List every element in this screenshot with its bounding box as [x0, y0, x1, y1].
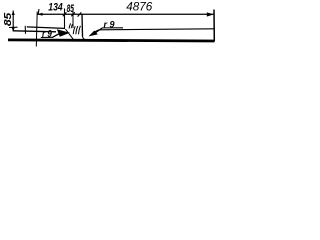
rail end face (left, vertical)	[24, 26, 26, 34]
svg-text:4876: 4876	[126, 0, 152, 14]
weld hatch stroke 1	[73, 26, 75, 34]
tick at dim start	[37, 9, 40, 14]
weld hatch stroke 0a	[69, 23, 71, 28]
arrowhead right end of top dimension	[207, 12, 214, 16]
weld hatch stroke 2	[76, 26, 78, 34]
slash tick at 4876 start	[78, 12, 82, 16]
right leader arrowhead	[89, 31, 98, 37]
slash tick at E3	[71, 12, 75, 16]
weld hatch stroke 3	[79, 26, 81, 35]
rail head bottom edge (left part)	[14, 31, 57, 32]
left leader line	[53, 34, 60, 38]
right leader line	[96, 28, 103, 33]
left r9 underline	[41, 36, 53, 38]
svg-text:r 9: r 9	[104, 20, 116, 31]
rail head top edge (left part)	[27, 27, 64, 29]
extension line E3 (right of 85)	[72, 9, 74, 29]
vertical dim top arrowhead	[12, 11, 15, 15]
right r9 underline	[102, 27, 123, 29]
arrowhead left end of top dimension	[37, 13, 42, 16]
svg-text:85: 85	[2, 13, 14, 27]
left leader big arrowhead	[57, 29, 70, 37]
vertical dim bottom arrowhead	[12, 27, 15, 31]
tick dash on left (extension of head top)	[9, 26, 18, 28]
dimension line (top horizontal)	[38, 13, 214, 15]
svg-text:r 9: r 9	[42, 29, 52, 40]
right part ramp	[94, 30, 100, 33]
right part top edge	[99, 29, 214, 30]
baseline (thick bottom edge)	[8, 40, 215, 41]
wall bottom fillet	[83, 37, 86, 40]
extension line E2 (134/85 boundary)	[64, 9, 66, 30]
slash tick at E2	[63, 12, 67, 16]
weld hatch stroke 0b	[71, 24, 72, 28]
notch right wall E4	[81, 14, 84, 37]
svg-text:134: 134	[48, 1, 62, 13]
right edge vertical	[213, 10, 215, 42]
extension line E1 (left end of 134)	[35, 12, 38, 47]
notch left slope	[66, 29, 74, 39]
svg-text:85: 85	[67, 3, 75, 15]
vertical dimension line (left, for 85)	[12, 11, 14, 32]
notch slope fillet to baseline	[73, 38, 76, 41]
